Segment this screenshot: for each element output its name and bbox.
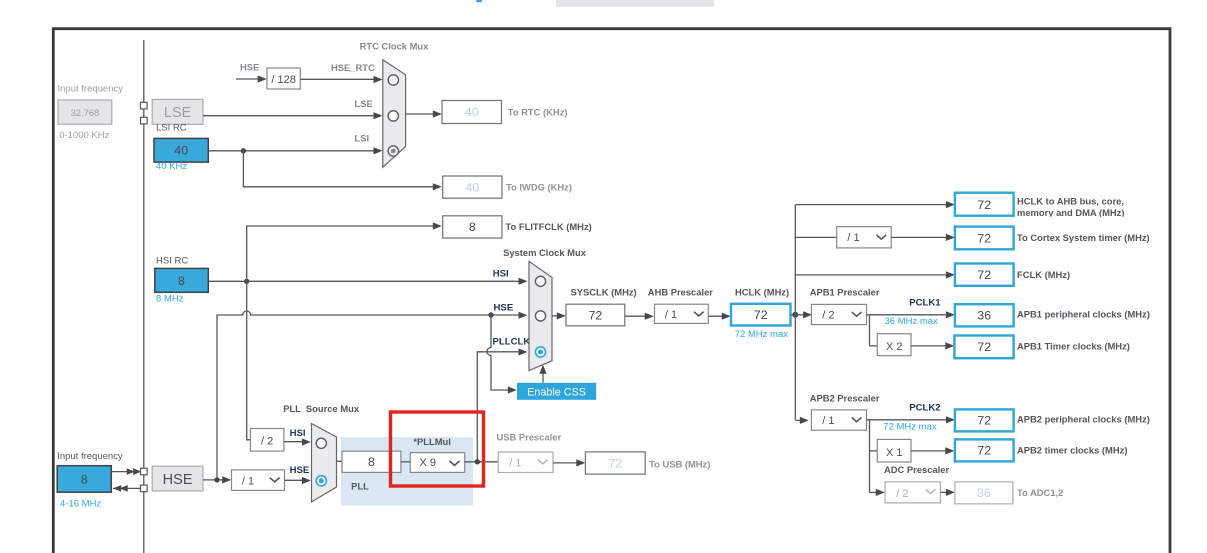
radio HSI — [535, 276, 545, 286]
svg-text:APB1 Prescaler: APB1 Prescaler — [810, 286, 880, 297]
wire APB1 to output — [867, 314, 950, 316]
wire branch HCLK to AHB output — [795, 204, 949, 206]
svg-text:PLLCLK: PLLCLK — [493, 337, 531, 348]
svg-text:PCLK1: PCLK1 — [909, 297, 941, 308]
multiplier X1 box — [877, 439, 911, 462]
svg-text:/ 2: / 2 — [822, 310, 834, 322]
svg-text:72: 72 — [977, 340, 991, 354]
wire 8 box to PLLMul — [401, 461, 410, 463]
wire X1 to output — [911, 450, 949, 452]
value box SYSCLK 72 — [566, 304, 625, 326]
dropdown APB2 Prescaler /1 — [811, 410, 866, 430]
output box APB1 peripheral 36 — [955, 304, 1014, 326]
svg-text:/ 2: / 2 — [896, 488, 908, 500]
multiplier X2 box — [877, 334, 911, 356]
svg-text:LSE: LSE — [355, 98, 373, 109]
svg-text:PLL Source Mux: PLL Source Mux — [283, 403, 360, 414]
wire branch to FCLK output — [795, 274, 949, 276]
dropdown APB1 Prescaler /2 — [811, 304, 866, 324]
junction HSI branch — [244, 279, 249, 284]
svg-text:PCLK2: PCLK2 — [909, 402, 940, 413]
output box FCLK 72 — [955, 264, 1014, 286]
svg-text:72: 72 — [977, 268, 991, 282]
wire sysmux to SYSCLK box — [552, 315, 561, 317]
wire branch to X2 — [870, 315, 878, 346]
svg-text:HSI: HSI — [493, 268, 509, 279]
svg-text:72: 72 — [754, 308, 768, 322]
oscillator HSI RC box value 8 — [155, 268, 209, 292]
svg-text:72: 72 — [977, 198, 991, 212]
wire HSE pin to input double arrows left — [113, 487, 140, 489]
wire LSI to RTC mux — [208, 150, 377, 152]
clock source vertical rail — [143, 40, 145, 553]
radio HSE — [535, 311, 545, 321]
output box To IWDG — [443, 176, 502, 198]
dropdown AHB Prescaler /1 — [655, 304, 709, 323]
svg-text:APB1 peripheral clocks (MHz): APB1 peripheral clocks (MHz) — [1017, 308, 1150, 319]
svg-text:8: 8 — [469, 220, 476, 234]
radio LSI selected — [388, 146, 398, 156]
oscillator HSE box — [152, 466, 203, 491]
svg-text:HSE: HSE — [494, 303, 514, 314]
wire PLLCLK riser — [477, 352, 522, 462]
wire SYSCLK to AHB prescaler — [625, 315, 649, 317]
svg-text:/ 1: / 1 — [242, 475, 254, 487]
output box To ADC 36 disabled — [955, 482, 1013, 504]
output box APB2 peripheral 72 — [955, 409, 1014, 431]
junction HCLK bus — [791, 314, 796, 316]
svg-text:To Cortex System timer (MHz): To Cortex System timer (MHz) — [1017, 232, 1150, 243]
mux System Clock Mux — [529, 261, 552, 370]
red highlight rectangle PLLMul — [391, 412, 484, 486]
svg-text:HSE: HSE — [163, 472, 193, 488]
wire HSE riser to system mux with hop — [217, 311, 523, 480]
svg-text:72: 72 — [589, 308, 603, 322]
svg-text:4-16 MHz: 4-16 MHz — [60, 499, 101, 510]
mux PLL Source Mux — [312, 424, 337, 502]
svg-text:72: 72 — [977, 444, 991, 458]
svg-text:To IWDG (KHz): To IWDG (KHz) — [506, 182, 572, 193]
wire Enable CSS up arrow — [542, 370, 544, 383]
output box To RTC — [442, 101, 502, 124]
svg-text:To ADC1,2: To ADC1,2 — [1017, 487, 1063, 498]
radio HSE_RTC — [388, 75, 398, 85]
wire HCLK distribution bus — [794, 205, 796, 420]
svg-text:APB2 peripheral clocks (MHz): APB2 peripheral clocks (MHz) — [1017, 413, 1150, 424]
output box APB2 timer 72 — [955, 439, 1014, 461]
wire LSI down to IWDG — [243, 151, 436, 187]
radio LSE — [388, 111, 398, 121]
svg-text:LSI: LSI — [355, 133, 370, 144]
svg-text:8 MHz: 8 MHz — [156, 294, 184, 305]
svg-text:X 2: X 2 — [886, 341, 903, 353]
wire /1 to PLL mux — [285, 479, 306, 481]
svg-text:Input frequency: Input frequency — [58, 84, 124, 95]
wire to ADC prescaler — [870, 491, 880, 493]
svg-text:40 KHz: 40 KHz — [156, 161, 187, 172]
junction HSE to CSS — [488, 312, 493, 317]
wire branch to Cortex /1 — [795, 236, 836, 238]
svg-text:HSI: HSI — [290, 428, 306, 439]
wire X2 to output — [911, 345, 949, 347]
svg-text:40: 40 — [465, 180, 479, 194]
wire /128 to RTC mux HSE_RTC input — [300, 78, 377, 80]
svg-text:HSE: HSE — [240, 62, 259, 73]
svg-text:32.768: 32.768 — [70, 108, 99, 119]
divider /2 box (PLL HSI) — [250, 429, 284, 452]
svg-text:/ 1: / 1 — [847, 232, 859, 244]
svg-text:/ 1: / 1 — [509, 457, 521, 469]
wire HSI to system mux — [208, 280, 522, 282]
svg-text:X 9: X 9 — [420, 457, 437, 469]
svg-text:36 MHz max: 36 MHz max — [885, 316, 939, 327]
svg-text:72: 72 — [608, 456, 622, 470]
mux RTC Clock Mux — [383, 60, 406, 168]
radio PLLCLK selected — [535, 347, 545, 357]
oscillator LSI RC box value 40 — [154, 138, 208, 162]
svg-text:To USB (MHz): To USB (MHz) — [649, 458, 710, 469]
junction LSI branch — [241, 148, 246, 153]
svg-text:40: 40 — [465, 105, 479, 119]
wire APB2 to output — [867, 419, 950, 421]
junction HSE — [214, 477, 219, 482]
svg-text:APB1 Timer clocks (MHz): APB1 Timer clocks (MHz) — [1017, 340, 1130, 351]
svg-text:40: 40 — [174, 144, 188, 158]
svg-text:memory and DMA (MHz): memory and DMA (MHz) — [1017, 207, 1124, 218]
wire AHB to HCLK box — [708, 315, 725, 317]
svg-text:/ 128: / 128 — [271, 74, 295, 86]
tab bar gray fragment — [556, 0, 714, 7]
wire ADC prescaler to output — [941, 491, 950, 493]
svg-text:HSE_RTC: HSE_RTC — [331, 62, 375, 73]
svg-text:APB2 timer clocks (MHz): APB2 timer clocks (MHz) — [1017, 444, 1127, 455]
wire Cortex /1 to output — [891, 236, 949, 238]
dropdown HSE /1 — [232, 470, 285, 491]
LSE pin squares — [141, 102, 148, 109]
svg-text:AHB Prescaler: AHB Prescaler — [648, 286, 713, 297]
value box HCLK 72 — [731, 304, 791, 326]
svg-text:APB2 Prescaler: APB2 Prescaler — [810, 392, 880, 403]
svg-text:72: 72 — [977, 414, 991, 428]
svg-text:LSI RC: LSI RC — [156, 123, 187, 134]
wire PLLMul to USB prescaler — [465, 461, 499, 463]
svg-text:72 MHz max: 72 MHz max — [883, 421, 937, 432]
dropdown ADC Prescaler /2 disabled — [885, 482, 941, 503]
svg-text:8: 8 — [81, 473, 88, 487]
svg-text:PLL: PLL — [351, 481, 369, 492]
svg-text:Input frequency: Input frequency — [57, 451, 123, 462]
HSE pin squares — [141, 468, 148, 475]
output box To USB 72 — [585, 452, 645, 474]
output box To FLITFCLK — [443, 216, 502, 238]
PLL block region — [341, 437, 473, 505]
svg-text:36: 36 — [977, 486, 991, 500]
svg-text:HCLK (MHz): HCLK (MHz) — [735, 286, 789, 297]
wire HSE down to Enable CSS with hop — [487, 315, 512, 390]
radio HSE (PLL) selected — [316, 476, 326, 486]
svg-text:72 MHz max: 72 MHz max — [735, 329, 789, 340]
output box APB1 timer 72 — [954, 336, 1013, 359]
wire branch to X1 and ADC — [869, 420, 871, 493]
svg-text:/ 1: / 1 — [665, 309, 677, 321]
svg-text:0-1000 KHz: 0-1000 KHz — [59, 130, 109, 141]
svg-text:36: 36 — [977, 309, 991, 323]
divider /128 box — [267, 68, 300, 89]
svg-text:Enable CSS: Enable CSS — [527, 386, 586, 398]
dropdown PLLMul X9 — [410, 453, 464, 473]
svg-text:To RTC (KHz): To RTC (KHz) — [508, 107, 568, 118]
value box PLL input 8 — [342, 451, 401, 472]
radio HSI (PLL) — [316, 438, 326, 448]
input box HSE frequency 8 — [57, 466, 111, 493]
svg-text:RTC Clock Mux: RTC Clock Mux — [360, 41, 430, 52]
output box HCLK to AHB 72 — [955, 193, 1014, 216]
button Enable CSS — [517, 383, 596, 400]
svg-text:HCLK to AHB bus, core,: HCLK to AHB bus, core, — [1017, 195, 1124, 206]
wire RTC mux to To RTC box — [406, 113, 437, 115]
svg-text:ADC Prescaler: ADC Prescaler — [884, 464, 949, 475]
svg-text:LSE: LSE — [164, 105, 192, 121]
oscillator LSE box — [152, 99, 203, 124]
svg-text:X 1: X 1 — [886, 447, 903, 459]
svg-text:HSI RC: HSI RC — [156, 255, 188, 266]
svg-text:/ 2: / 2 — [261, 436, 273, 448]
svg-text:8: 8 — [178, 274, 185, 288]
input box 32.768 — [58, 100, 112, 124]
svg-text:8: 8 — [368, 455, 375, 469]
wire HSI up to FLITFCLK — [247, 226, 437, 281]
svg-text:To FLITFCLK (MHz): To FLITFCLK (MHz) — [506, 221, 592, 232]
svg-text:FCLK (MHz): FCLK (MHz) — [1017, 269, 1070, 280]
output box To Cortex 72 — [955, 227, 1014, 250]
wire input to HSE pin double arrows right — [111, 471, 129, 473]
tab bar blue underline fragment — [476, 0, 482, 2]
dropdown USB Prescaler /1 disabled — [498, 452, 553, 473]
wire bus down to APB2 — [795, 419, 803, 421]
dropdown Cortex prescaler /1 — [837, 227, 892, 248]
svg-text:72: 72 — [977, 231, 991, 245]
wire USB prescaler to output — [553, 462, 580, 464]
svg-text:System Clock Mux: System Clock Mux — [503, 247, 587, 258]
wire HSI down to PLL /2 — [247, 281, 250, 440]
wire LSE to RTC mux — [203, 115, 378, 117]
svg-text:SYSCLK (MHz): SYSCLK (MHz) — [571, 286, 637, 297]
wire /2 to PLL mux — [284, 441, 306, 443]
svg-text:/ 1: / 1 — [822, 415, 834, 427]
svg-text:USB Prescaler: USB Prescaler — [497, 432, 562, 443]
svg-text:HSE: HSE — [290, 465, 310, 476]
junction PLLCLK — [475, 459, 480, 464]
wire PLL mux out — [337, 460, 343, 462]
wire HSE box to /1 — [203, 479, 226, 481]
wire HSE to /128 — [236, 78, 262, 80]
svg-text:*PLLMul: *PLLMul — [413, 436, 451, 447]
wire HCLK to APB1 prescaler — [795, 314, 807, 316]
